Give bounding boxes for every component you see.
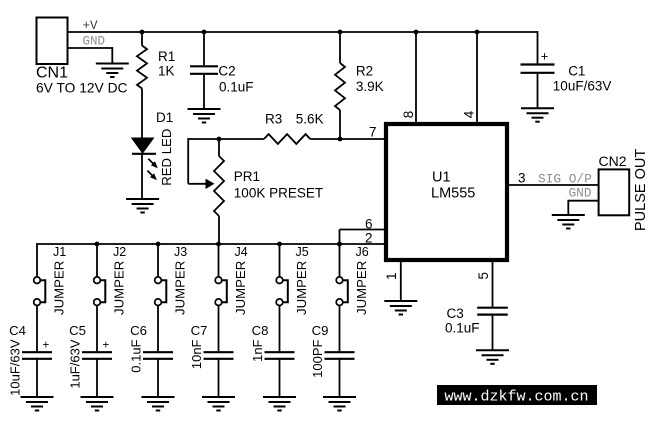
ground (C1) xyxy=(521,108,554,122)
svg-text:C6: C6 xyxy=(130,323,147,338)
jumper J4 top contact xyxy=(215,277,222,284)
node rail-C2 xyxy=(202,30,207,35)
jumper J2 shunt bracket xyxy=(101,280,106,302)
op-amp U1 LM555 body xyxy=(386,124,507,260)
ground (C7) xyxy=(202,397,235,411)
ground (C2) xyxy=(188,109,221,123)
wire C7 bottom lead xyxy=(218,359,220,396)
pin 7 label xyxy=(369,125,377,140)
label JUMPER (J6) xyxy=(354,261,369,315)
svg-text:10uF/63V: 10uF/63V xyxy=(553,79,612,94)
svg-text:100K PRESET: 100K PRESET xyxy=(234,186,323,201)
LED arrow 1 xyxy=(148,159,158,169)
label C8 xyxy=(252,323,269,338)
label JUMPER (J3) xyxy=(173,261,188,315)
wire R2 bottom lead xyxy=(339,110,341,139)
node rail-J4 xyxy=(216,242,221,247)
label JUMPER (J1) xyxy=(52,261,67,315)
label J1 xyxy=(53,245,66,259)
svg-text:0.1uF: 0.1uF xyxy=(129,339,144,372)
label C5 xyxy=(69,323,86,338)
svg-text:10uF/63V: 10uF/63V xyxy=(8,339,23,396)
wire J5 to C8 xyxy=(279,306,281,352)
svg-text:JUMPER: JUMPER xyxy=(294,261,309,315)
wire J6 to C9 xyxy=(339,306,341,352)
label C9 xyxy=(312,323,329,338)
ground (C9) xyxy=(323,397,356,411)
wire C6 bottom lead xyxy=(157,359,159,396)
label LM555 xyxy=(431,186,475,202)
svg-text:+V: +V xyxy=(83,19,99,33)
svg-text:C7: C7 xyxy=(191,323,208,338)
capacitor C4 xyxy=(22,352,52,359)
svg-text:4: 4 xyxy=(462,110,477,118)
label C4 xyxy=(9,323,26,338)
label J5 xyxy=(296,245,309,259)
svg-text:RED LED: RED LED xyxy=(159,129,174,186)
capacitor C5 xyxy=(82,352,112,359)
svg-text:J3: J3 xyxy=(174,245,187,259)
wire pin2 / bottom rail xyxy=(37,243,385,245)
svg-text:3.9K: 3.9K xyxy=(356,79,384,94)
node rail-pin8 xyxy=(414,30,419,35)
svg-text:C2: C2 xyxy=(218,63,235,78)
svg-text:JUMPER: JUMPER xyxy=(52,261,67,315)
jumper J5 bottom contact xyxy=(276,299,283,306)
net +V label xyxy=(83,19,99,33)
wire rail to J2 xyxy=(96,244,98,277)
capacitor C7 xyxy=(204,352,234,359)
svg-text:R1: R1 xyxy=(158,49,175,64)
node rail-R1 xyxy=(140,30,145,35)
label C3 xyxy=(447,306,464,321)
capacitor C5 plus xyxy=(103,340,110,352)
net SIG O/P label xyxy=(538,172,592,187)
label JUMPER (J4) xyxy=(233,261,248,315)
svg-text:PULSE OUT: PULSE OUT xyxy=(633,149,649,231)
wire C9 bottom lead xyxy=(339,359,341,396)
pin 5 label xyxy=(476,272,491,280)
wire J4 to C7 xyxy=(218,306,220,352)
node rail-R2 xyxy=(338,30,343,35)
wire rail left drop xyxy=(36,243,38,277)
label PR1 xyxy=(234,169,260,184)
capacitor C1 plus xyxy=(541,49,549,64)
svg-text:2: 2 xyxy=(365,231,373,246)
svg-text:1uF/63V: 1uF/63V xyxy=(68,339,83,388)
ground (C3) xyxy=(476,350,509,364)
svg-text:U1: U1 xyxy=(432,169,451,185)
svg-text:+: + xyxy=(103,340,110,352)
node R2-R3 junction xyxy=(338,137,343,142)
wire PR1 top lead xyxy=(218,139,220,156)
label 100K PRESET xyxy=(234,186,323,201)
wire PR1 bottom lead xyxy=(218,216,220,244)
svg-text:R2: R2 xyxy=(356,64,373,79)
label C2 xyxy=(218,63,235,78)
wire rail to J4 xyxy=(218,244,220,277)
wire rail to C1 xyxy=(537,31,539,63)
potentiometer PR1 body xyxy=(214,156,224,216)
svg-text:C4: C4 xyxy=(9,323,26,338)
label 10nF (C7) xyxy=(189,339,204,369)
svg-text:5.6K: 5.6K xyxy=(296,112,324,127)
label 3.9K xyxy=(356,79,384,94)
jumper J4 bottom contact xyxy=(215,299,222,306)
connector CN1 xyxy=(37,18,68,65)
svg-text:0.1uF: 0.1uF xyxy=(445,321,480,336)
svg-text:GND: GND xyxy=(569,186,592,201)
label 0.1uF (C6) xyxy=(129,339,144,372)
label U1 xyxy=(432,169,451,185)
ground (C5) xyxy=(81,397,114,411)
svg-text:6V TO 12V DC: 6V TO 12V DC xyxy=(36,81,128,96)
capacitor C6 xyxy=(143,352,173,359)
ground (C8) xyxy=(263,397,296,411)
net GND label (CN2) xyxy=(569,186,592,201)
wire C2 bottom lead xyxy=(203,75,205,109)
jumper J4 shunt bracket xyxy=(222,280,227,302)
wire C8 bottom lead xyxy=(279,359,281,396)
label JUMPER (J5) xyxy=(294,261,309,315)
label J3 xyxy=(174,245,187,259)
label R3 xyxy=(265,112,282,127)
svg-text:JUMPER: JUMPER xyxy=(354,261,369,315)
svg-text:J1: J1 xyxy=(53,245,66,259)
resistor R3 xyxy=(264,134,310,144)
ground (D1) xyxy=(126,199,159,213)
pin 8 label xyxy=(401,111,416,119)
wire CN2 gnd stub xyxy=(568,200,598,215)
svg-text:C1: C1 xyxy=(568,63,585,78)
wire R1 top lead xyxy=(141,32,143,46)
node rail-J6 xyxy=(337,242,342,247)
svg-text:SIG O/P: SIG O/P xyxy=(538,172,592,187)
svg-text:J6: J6 xyxy=(356,245,369,259)
svg-text:C3: C3 xyxy=(447,306,464,321)
label J2 xyxy=(113,245,126,259)
ground (pin1) xyxy=(384,301,417,315)
svg-text:3: 3 xyxy=(518,171,526,186)
resistor R2 xyxy=(335,63,345,110)
svg-text:C5: C5 xyxy=(69,323,86,338)
wire pin5 xyxy=(492,262,494,307)
net GND label (CN1) xyxy=(83,35,106,49)
pin 1 label xyxy=(384,272,399,280)
wire C5 bottom lead xyxy=(96,359,98,396)
LED arrow 2 xyxy=(147,171,157,181)
wire +V from CN1 to rail xyxy=(68,31,143,33)
jumper J6 bottom contact xyxy=(336,299,343,306)
ground (C4) xyxy=(21,397,54,411)
label CN2 xyxy=(599,153,627,169)
capacitor C4 plus xyxy=(43,340,50,352)
jumper J6 top contact xyxy=(336,277,343,284)
pin 4 label xyxy=(462,110,477,118)
svg-text:www.dzkfw.com.cn: www.dzkfw.com.cn xyxy=(445,389,589,406)
connector CN2 xyxy=(599,169,630,215)
wire J2 to C5 xyxy=(96,306,98,352)
jumper J3 shunt bracket xyxy=(162,280,167,302)
label 100PF (C9) xyxy=(310,339,325,377)
wire pin 4 xyxy=(476,32,478,122)
wire pin1 xyxy=(400,262,402,301)
svg-text:10nF: 10nF xyxy=(189,339,204,369)
pin 6 label xyxy=(365,217,373,232)
capacitor C9 xyxy=(325,352,355,359)
svg-text:7: 7 xyxy=(369,125,377,140)
capacitor C2 xyxy=(190,66,218,74)
wire rail to J5 xyxy=(279,244,281,277)
wire pin7 segment xyxy=(340,138,385,140)
svg-text:0.1uF: 0.1uF xyxy=(219,80,254,95)
svg-text:C8: C8 xyxy=(252,323,269,338)
wire R3 right lead xyxy=(310,138,340,140)
wire GND from CN1 xyxy=(68,47,113,63)
label C1 xyxy=(568,63,585,78)
wire J3 to C6 xyxy=(157,306,159,352)
node rail-J2 xyxy=(95,242,100,247)
svg-text:GND: GND xyxy=(83,35,106,49)
svg-text:CN2: CN2 xyxy=(599,153,627,169)
svg-text:8: 8 xyxy=(401,111,416,119)
svg-text:+: + xyxy=(541,49,549,64)
label 1uF/63V (C5) xyxy=(68,339,83,388)
svg-text:R3: R3 xyxy=(265,112,282,127)
label 1K xyxy=(158,63,175,78)
wire R1 to D1 xyxy=(141,89,143,139)
ground (CN1 GND) xyxy=(96,64,129,78)
svg-text:1: 1 xyxy=(384,272,399,280)
svg-text:1nF: 1nF xyxy=(250,339,265,361)
node rail-J5 xyxy=(277,242,282,247)
diode D1 (LED) xyxy=(132,138,156,154)
svg-text:5: 5 xyxy=(476,272,491,280)
svg-text:D1: D1 xyxy=(156,110,173,125)
PR1 wiper arrow xyxy=(206,179,215,189)
wire rail to J6 xyxy=(339,244,341,277)
label CN1 xyxy=(36,65,68,82)
label 0.1uF (C2) xyxy=(219,80,254,95)
pin 2 label xyxy=(365,231,373,246)
svg-text:JUMPER: JUMPER xyxy=(173,261,188,315)
svg-text:100PF: 100PF xyxy=(310,339,325,377)
label PULSE OUT xyxy=(633,149,649,231)
jumper J5 top contact xyxy=(276,277,283,284)
wire pin3 xyxy=(509,184,599,186)
watermark box xyxy=(437,385,597,405)
wire C3 bottom lead xyxy=(492,316,494,351)
jumper J3 bottom contact xyxy=(155,299,162,306)
jumper J2 bottom contact xyxy=(94,299,101,306)
label 5.6K xyxy=(296,112,324,127)
wire C4 bottom lead xyxy=(36,359,38,396)
svg-text:PR1: PR1 xyxy=(234,169,260,184)
label R1 xyxy=(158,49,175,64)
label C7 xyxy=(191,323,208,338)
node pin6-pin2 junction xyxy=(337,242,342,247)
node rail-pin4 xyxy=(475,30,480,35)
wire R2 top lead xyxy=(339,32,341,63)
label C6 xyxy=(130,323,147,338)
watermark text xyxy=(445,389,589,406)
svg-text:C9: C9 xyxy=(312,323,329,338)
jumper J1 shunt bracket xyxy=(41,280,46,302)
wire C2 top lead xyxy=(203,32,205,65)
wire pin 8 xyxy=(415,32,417,122)
label 6V TO 12V DC xyxy=(36,81,128,96)
svg-text:J4: J4 xyxy=(235,245,248,259)
wire J1 to C4 xyxy=(36,306,38,352)
label R2 xyxy=(356,64,373,79)
wire rail to J3 xyxy=(157,244,159,277)
wire R3 left lead xyxy=(219,138,264,140)
jumper J3 top contact xyxy=(155,277,162,284)
svg-text:LM555: LM555 xyxy=(431,186,475,202)
resistor R1 xyxy=(137,46,147,89)
jumper J6 shunt bracket xyxy=(343,280,348,302)
jumper J2 top contact xyxy=(94,277,101,284)
node PR1 top junction xyxy=(217,137,222,142)
wire PR1 wiper loop xyxy=(188,138,219,184)
capacitor C1 xyxy=(521,65,555,73)
capacitor C3 xyxy=(477,308,508,315)
jumper J1 bottom contact xyxy=(34,299,41,306)
label RED LED xyxy=(159,129,174,186)
wire pin6 xyxy=(340,230,386,245)
ground (CN2 GND) xyxy=(552,215,585,229)
jumper J1 top contact xyxy=(34,277,41,284)
label J6 xyxy=(356,245,369,259)
svg-text:J5: J5 xyxy=(296,245,309,259)
pin 3 label xyxy=(518,171,526,186)
svg-text:1K: 1K xyxy=(158,63,175,78)
svg-text:J2: J2 xyxy=(113,245,126,259)
svg-text:+: + xyxy=(43,340,50,352)
label JUMPER (J2) xyxy=(112,261,127,315)
label 1nF (C8) xyxy=(250,339,265,361)
label 10uF/63V (C1) xyxy=(553,79,612,94)
label 10uF/63V (C4) xyxy=(8,339,23,396)
svg-text:JUMPER: JUMPER xyxy=(112,261,127,315)
capacitor C8 xyxy=(265,352,295,359)
svg-text:6: 6 xyxy=(365,217,373,232)
label 0.1uF (C3) xyxy=(445,321,480,336)
label D1 xyxy=(156,110,173,125)
ground (C6) xyxy=(142,397,175,411)
wire D1 cathode to ground xyxy=(141,154,143,199)
node rail-J3 xyxy=(156,242,161,247)
jumper J5 shunt bracket xyxy=(283,280,288,302)
wire C1 bottom lead xyxy=(537,74,539,108)
svg-text:CN1: CN1 xyxy=(36,65,68,82)
wire +V rail xyxy=(142,31,538,33)
svg-text:JUMPER: JUMPER xyxy=(233,261,248,315)
label J4 xyxy=(235,245,248,259)
